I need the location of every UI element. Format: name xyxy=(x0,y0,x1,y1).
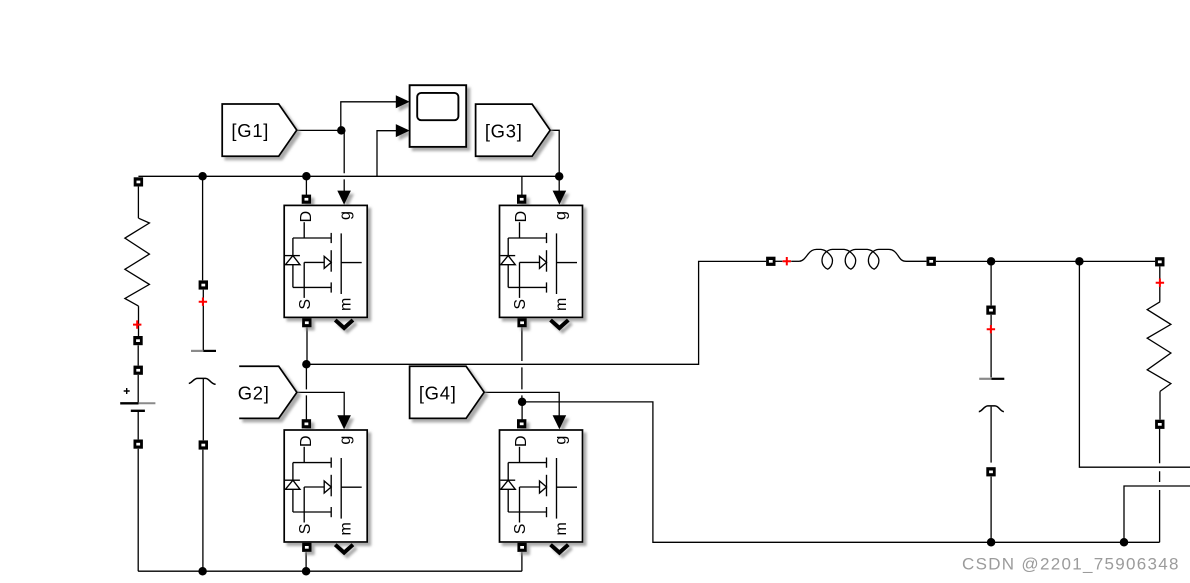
wire: TR drain stub xyxy=(521,176,523,195)
wire: bottom rail xyxy=(138,570,522,572)
wire: load zigzag to bottom port xyxy=(1159,391,1161,419)
scope input arrow 1 xyxy=(396,95,410,108)
wire: C1 curve to bottom port xyxy=(202,379,204,440)
wire: C2 top xyxy=(990,261,992,305)
svg-text:G2]: G2] xyxy=(238,382,270,403)
wire: TR source to right midpoint (gaps at crossings) xyxy=(521,327,523,402)
scope input arrow 2 xyxy=(396,124,410,137)
wire: battery bottom plate to port xyxy=(137,412,139,440)
red plus load xyxy=(1156,279,1164,287)
capacitor C1 plates xyxy=(191,350,203,352)
resistor R load zigzag xyxy=(1147,302,1171,392)
wire: inductor lead after plus xyxy=(791,260,799,262)
wire: output top rail xyxy=(936,260,1155,262)
node bottom rail-C1 xyxy=(198,567,207,576)
mosfet Q1 top-left xyxy=(284,191,367,328)
wire: C2 curve to bottom port xyxy=(990,407,992,463)
wire: top rail from R1 port to G3 junction xyxy=(138,175,559,177)
capacitor C2 plates xyxy=(979,378,991,380)
tag [G4] xyxy=(410,366,485,418)
node G1 branch xyxy=(337,126,346,135)
wire: C1 top xyxy=(202,176,204,280)
red plus C1 xyxy=(199,298,207,306)
wire: G3 junction left to scope input 2 xyxy=(377,131,396,177)
wire: junction down to TL gate arrow (gap at rail crossing) xyxy=(343,130,345,191)
resistor R1 ports xyxy=(134,177,143,186)
red plus R1 xyxy=(133,320,141,328)
wire: R1 top port to zigzag xyxy=(137,187,139,219)
battery DC source xyxy=(134,366,143,375)
wire: load top xyxy=(1159,267,1161,302)
mosfet Q3 top-right xyxy=(500,191,583,328)
wire: G4 tip to BR gate arrow xyxy=(484,392,559,415)
wire: C2 port to plate xyxy=(990,315,992,378)
node out-bottom-C2 xyxy=(987,538,996,547)
wire: BL source to rail xyxy=(305,552,307,571)
capacitor C1 ports xyxy=(199,280,208,289)
wire: R1 port to battery port xyxy=(137,345,139,365)
wire: C2 bottom port to rail xyxy=(990,477,992,543)
wire: left midpoint to BL drain (gap at G2 wire) xyxy=(305,364,307,419)
svg-text:CSDN @2201_75906348: CSDN @2201_75906348 xyxy=(962,554,1180,573)
wire: G3 tip down to junction and gate arrow of TR xyxy=(550,130,559,191)
wire: load bottom leg (gaps at crossings) xyxy=(1159,429,1161,543)
wire: R1 zigzag to bottom port xyxy=(138,306,140,336)
svg-text:[G1]: [G1] xyxy=(231,120,269,141)
node out-bottom-branch xyxy=(1120,538,1129,547)
mosfet Q2 bottom-left xyxy=(284,415,367,552)
wire: right branch down and off-screen xyxy=(1079,261,1190,467)
tag [G1] xyxy=(222,104,297,156)
node out-top-branch xyxy=(1075,257,1084,266)
wire: G1 tip to junction xyxy=(297,129,341,131)
scope screen xyxy=(417,93,458,120)
wire: junction up to scope input 1 xyxy=(341,102,396,131)
resistor R1 zigzag xyxy=(125,218,149,306)
node rail-TL.D xyxy=(302,172,311,181)
node out-top-C2 xyxy=(987,257,996,266)
scope block xyxy=(396,85,466,147)
wire: right midpoint to output bottom rail xyxy=(522,402,1160,542)
wire: second off-screen branch xyxy=(1124,486,1190,542)
node G3 branch xyxy=(555,172,564,181)
wire: TL source to left midpoint xyxy=(306,327,308,364)
node rail-C1 xyxy=(198,172,207,181)
svg-text:[G3]: [G3] xyxy=(485,120,523,141)
wire: right midpoint to BR drain xyxy=(521,402,523,420)
node right midpoint xyxy=(518,398,527,407)
node bottom rail-BL.S xyxy=(302,567,311,576)
tag G2 (clipped at left) xyxy=(238,366,297,418)
tag [G3] xyxy=(476,104,551,156)
wire: G2 tip to BL gate arrow xyxy=(297,392,344,415)
battery plates xyxy=(120,402,138,404)
wire: C1 port to plate xyxy=(202,290,204,351)
red plus C2 xyxy=(987,325,995,333)
wire: battery top port to plate xyxy=(137,375,139,403)
wire: battery bottom to rail xyxy=(137,449,139,571)
wire: inductor left lead xyxy=(776,260,783,262)
wire: left midpoint to inductor xyxy=(306,261,766,364)
inductor coil xyxy=(799,249,926,269)
wire: C1 bottom to rail xyxy=(202,450,204,572)
battery plus sign xyxy=(124,388,130,394)
svg-text:[G4]: [G4] xyxy=(419,382,457,403)
mosfet Q4 bottom-right xyxy=(500,415,583,552)
red plus L xyxy=(783,257,791,265)
node left midpoint xyxy=(302,360,311,369)
wire: BR source to bottom rail xyxy=(521,552,523,571)
wire: TL drain stub xyxy=(305,176,307,195)
